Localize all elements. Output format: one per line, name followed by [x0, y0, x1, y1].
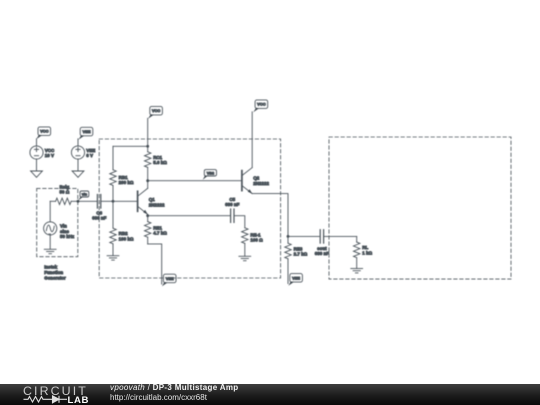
- node vin junction: [77, 200, 80, 203]
- svg-text:VCC: VCC: [257, 102, 266, 107]
- resistor RL: [354, 236, 373, 268]
- resistor RE-1: [242, 228, 264, 256]
- svg-text:VEE: VEE: [292, 275, 300, 280]
- svg-text:Instek: Instek: [44, 265, 58, 270]
- wire VCC flag to top rail: [147, 118, 149, 146]
- footer title text: [110, 384, 238, 392]
- node Q1 emitter junction: [146, 214, 149, 217]
- svg-text:50 kHz: 50 kHz: [60, 234, 75, 239]
- net flag VEE (stage 1): [162, 274, 176, 286]
- transistor Q2 2N2222: [242, 168, 270, 194]
- wire VB2 row: [148, 180, 242, 182]
- svg-text:4.7 kΩ: 4.7 kΩ: [153, 231, 167, 236]
- resistor RB2: [110, 201, 134, 255]
- voltage source V_VCC: [30, 139, 55, 171]
- resistor Rsig: [50, 184, 78, 204]
- svg-text:5.6 kΩ: 5.6 kΩ: [153, 160, 167, 165]
- node top rail junction: [146, 145, 149, 148]
- svg-text:2N2222: 2N2222: [149, 202, 165, 207]
- svg-text:Vin: Vin: [60, 224, 67, 229]
- resistor RE1: [145, 216, 168, 244]
- transistor Q1 2N2222: [138, 188, 165, 215]
- svg-text:160 Ω: 160 Ω: [250, 238, 263, 243]
- wire RE1 to VEE flag: [148, 244, 162, 284]
- CircuitLab logo: [23, 385, 88, 397]
- wire top rail RB1 to RC1 column: [113, 145, 148, 147]
- svg-text:Q1: Q1: [149, 197, 156, 202]
- function generator dashed box: [37, 188, 78, 256]
- capacitor C6: [92, 195, 107, 221]
- svg-text:680 nF: 680 nF: [92, 216, 107, 221]
- svg-text:100 kΩ: 100 kΩ: [119, 237, 134, 242]
- capacitor C5: [225, 197, 240, 223]
- svg-text:50 Ω: 50 Ω: [60, 190, 70, 195]
- svg-text:200 kΩ: 200 kΩ: [119, 180, 134, 185]
- net flag VCC (supply): [36, 127, 50, 139]
- svg-text:sine: sine: [60, 229, 70, 234]
- net flag VEE (supply): [78, 127, 92, 139]
- svg-text:vin: vin: [82, 193, 88, 197]
- svg-text:VCC: VCC: [152, 108, 161, 113]
- svg-text:680 nF: 680 nF: [225, 202, 240, 207]
- wire output node to cout: [288, 235, 319, 237]
- load dashed box: [329, 137, 511, 279]
- footer bar: [0, 384, 540, 405]
- svg-text:VCC: VCC: [40, 129, 49, 134]
- net flag VCC (stage 1): [148, 106, 162, 118]
- ground (earth) under RB2: [107, 256, 119, 260]
- resistor RE3: [285, 236, 308, 283]
- svg-text:VB2: VB2: [207, 171, 214, 175]
- wire C6 to base node: [102, 200, 113, 202]
- wire cout to RL: [324, 235, 356, 237]
- svg-text:680 nF: 680 nF: [315, 251, 330, 256]
- svg-text:VEE: VEE: [82, 129, 90, 134]
- footer url text: [110, 394, 207, 402]
- svg-text:Generator: Generator: [44, 276, 66, 281]
- svg-text:6 V: 6 V: [86, 153, 93, 158]
- voltage source V_VEE: [71, 139, 95, 171]
- node base divider junction: [112, 200, 115, 203]
- net flag VEE (stage 2): [288, 274, 302, 286]
- wire Q1 emitter row to C5: [148, 215, 230, 217]
- ground (earth) under RL: [351, 269, 363, 273]
- voltage source Vin (sine): [44, 201, 75, 249]
- net flag VB2: [203, 170, 217, 180]
- wire base node to Q1 base: [113, 200, 137, 202]
- ground (node) under V_VCC: [31, 171, 43, 177]
- wire C5 to RE-1: [235, 216, 245, 228]
- svg-text:10 V: 10 V: [45, 153, 54, 158]
- ground (earth) under Vin: [44, 249, 56, 253]
- ground (earth) under RE-1: [239, 256, 251, 260]
- ground (node) under V_VEE: [72, 171, 84, 177]
- node output junction: [287, 235, 290, 238]
- wire Q2 collector to VCC: [251, 112, 253, 168]
- svg-text:2N2222: 2N2222: [253, 181, 269, 186]
- net flag VCC (stage 2): [253, 100, 267, 112]
- svg-text:1 kΩ: 1 kΩ: [362, 250, 372, 255]
- label Instek Function Generator: [44, 265, 66, 281]
- capacitor cout: [315, 230, 330, 257]
- svg-text:RB2: RB2: [119, 231, 128, 236]
- resistor RC1: [145, 146, 168, 188]
- amplifier dashed box: [99, 139, 280, 278]
- wire vin to C6: [79, 200, 96, 202]
- svg-text:Function: Function: [44, 270, 63, 275]
- net flag vin: [78, 191, 88, 200]
- node VB2 junction: [146, 179, 149, 182]
- wire Q2 emitter to output node: [252, 194, 288, 237]
- svg-text:LAB: LAB: [68, 395, 90, 405]
- resistor RB1: [110, 146, 134, 201]
- svg-text:Q2: Q2: [253, 176, 260, 181]
- svg-text:2.7 kΩ: 2.7 kΩ: [294, 252, 308, 257]
- svg-text:VEE: VEE: [166, 276, 174, 281]
